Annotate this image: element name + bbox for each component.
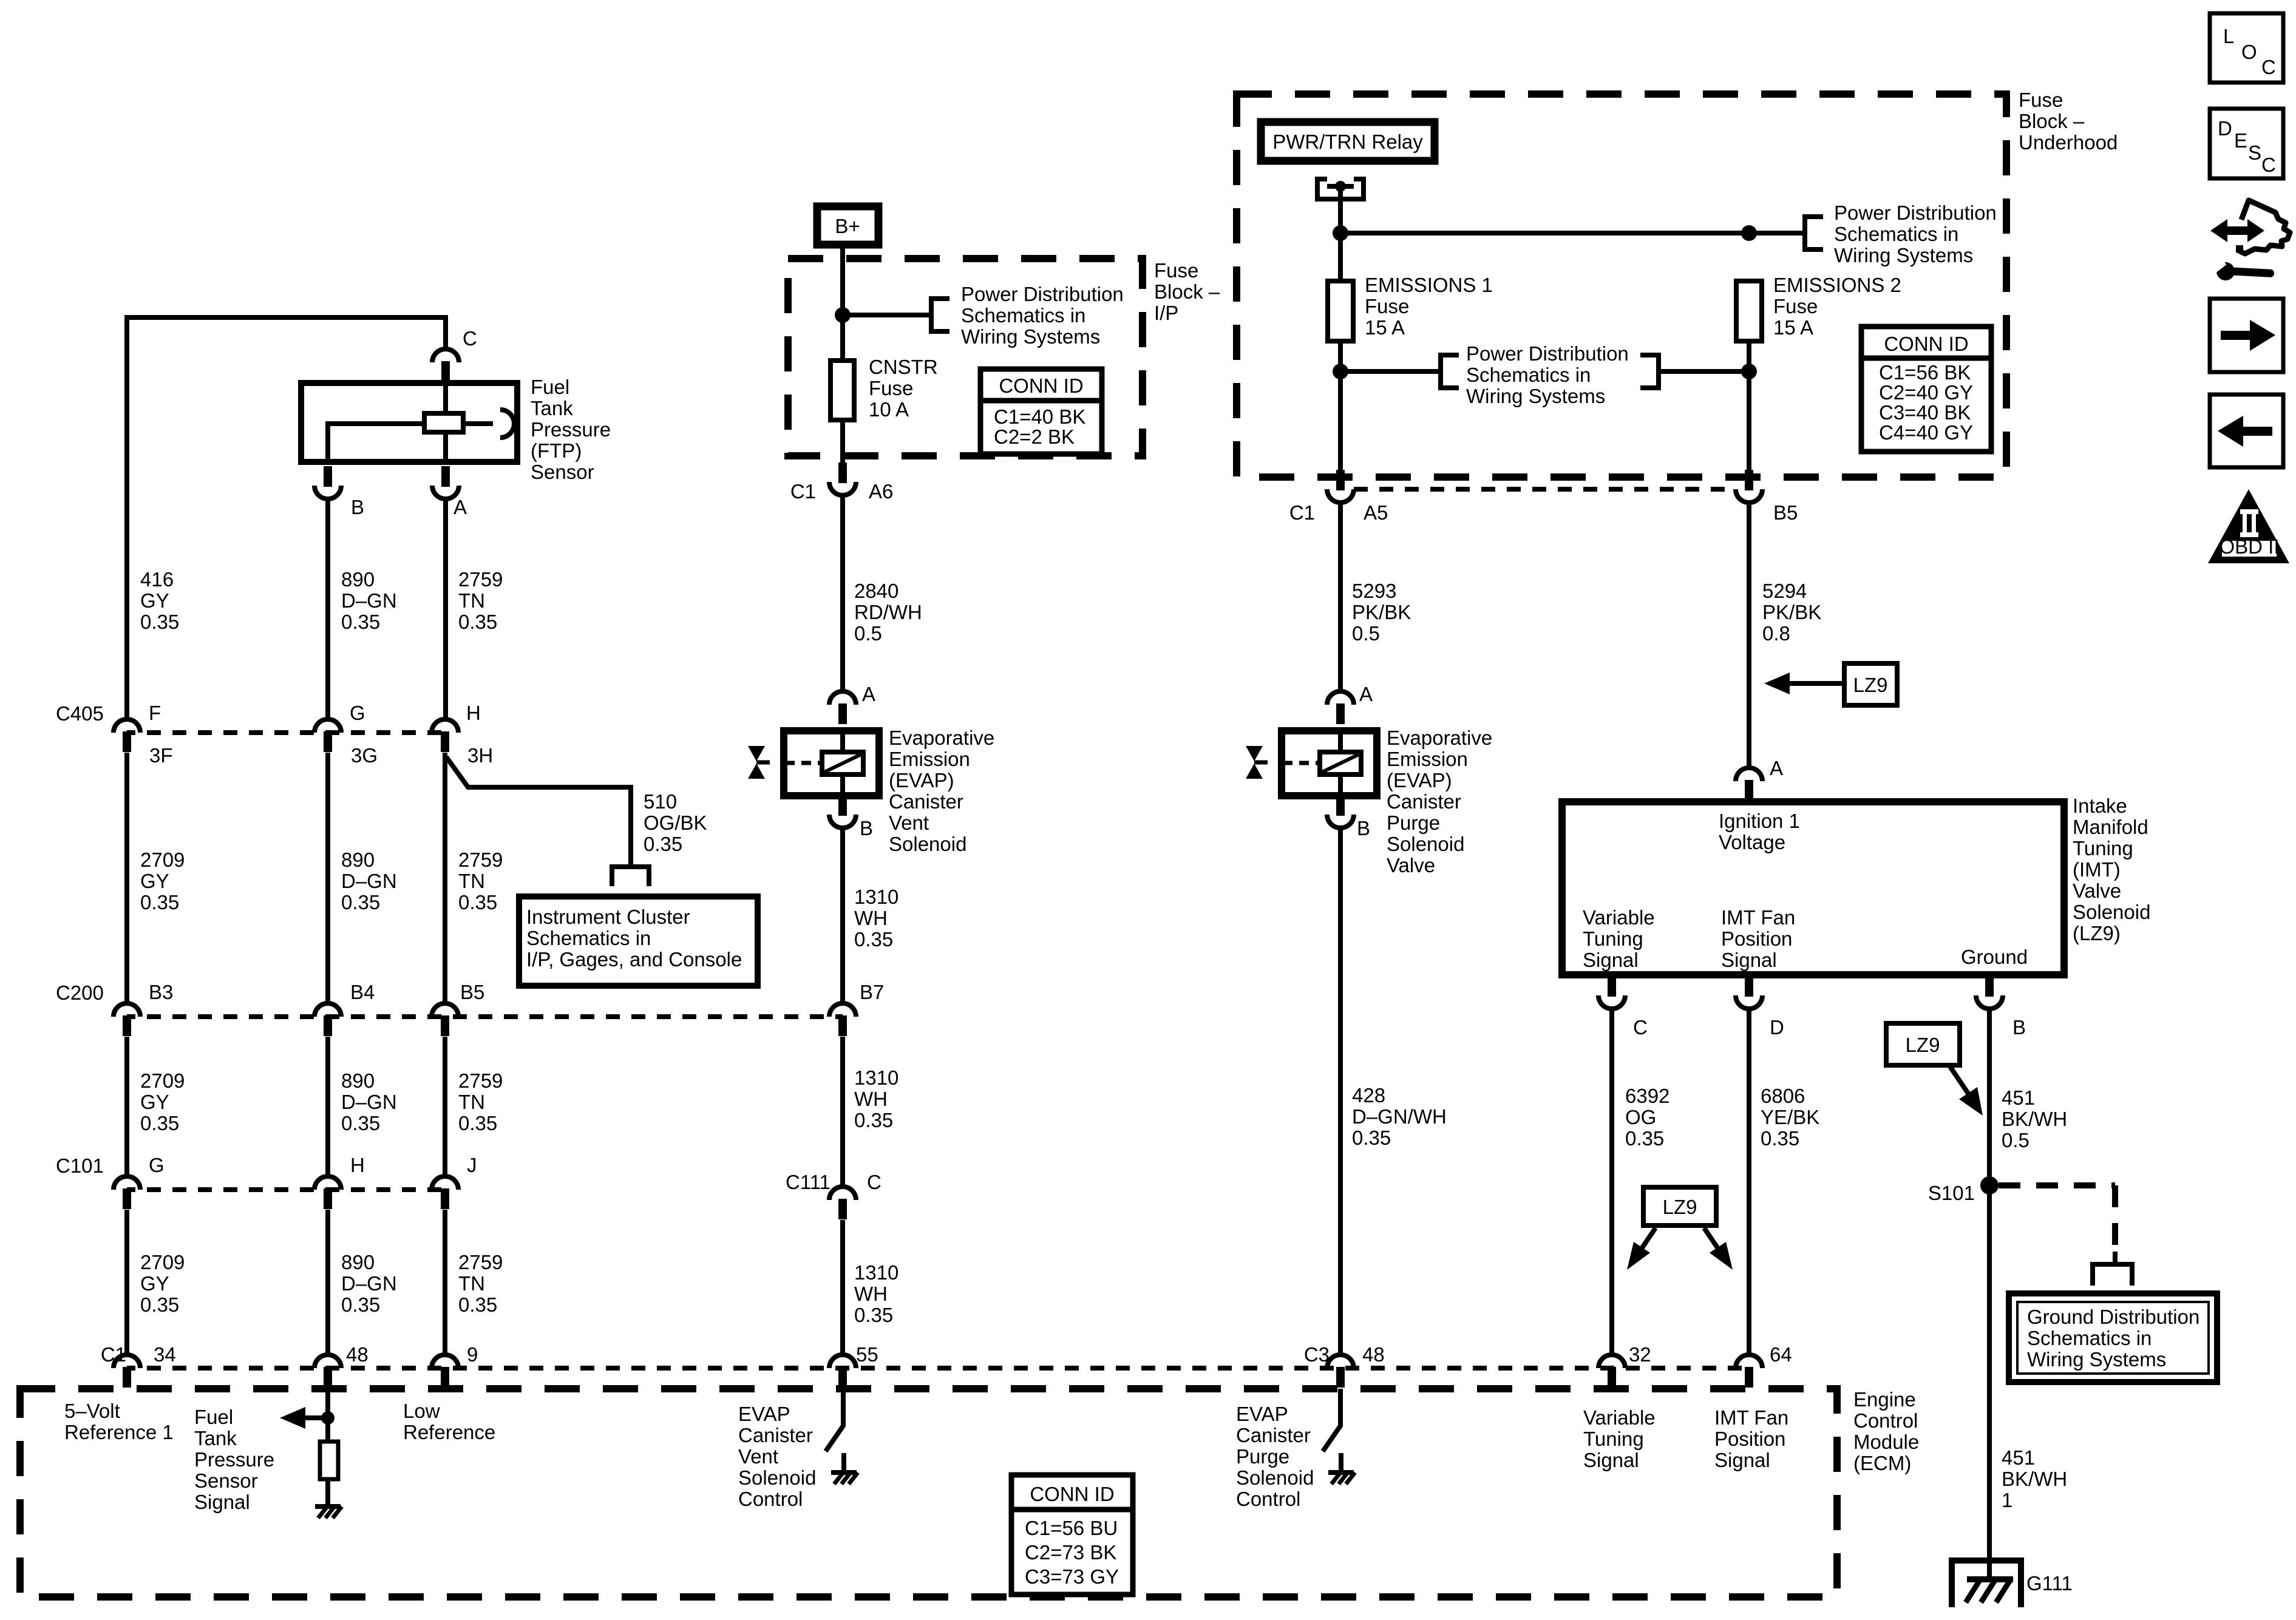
svg-text:OG/BK: OG/BK: [644, 812, 707, 834]
svg-text:Solenoid: Solenoid: [1387, 833, 1464, 855]
svg-text:Power Distribution: Power Distribution: [961, 283, 1124, 305]
wire 2709 GY segment 4: [124, 1210, 129, 1355]
svg-text:0.35: 0.35: [1352, 1127, 1391, 1149]
LZ9 arrow to ground wire: [1950, 1066, 1970, 1096]
svg-text:GY: GY: [140, 1091, 169, 1113]
svg-text:Position: Position: [1714, 1428, 1785, 1450]
svg-text:Valve: Valve: [2073, 879, 2121, 902]
wire 890 D-GN segment 4: [325, 1210, 330, 1355]
svg-text:Signal: Signal: [1583, 949, 1639, 971]
svg-text:CONN ID: CONN ID: [1884, 333, 1968, 355]
svg-text:D: D: [2218, 117, 2232, 140]
svg-text:Signal: Signal: [1714, 1449, 1770, 1471]
svg-text:GY: GY: [140, 870, 169, 892]
svg-text:0.35: 0.35: [341, 1293, 380, 1316]
wire 2759 TN segment 4: [443, 1210, 447, 1355]
LZ9 arrow right: [1704, 1228, 1723, 1256]
CONN ID table (I/P): [980, 369, 1102, 454]
svg-text:A: A: [1359, 683, 1373, 705]
EVAP canister vent solenoid coil box: [784, 731, 879, 796]
svg-text:Signal: Signal: [1583, 1449, 1639, 1471]
LZ9 callout box with two arrows: [1643, 1187, 1716, 1225]
connector C1 ECM dashed line: [127, 1366, 1749, 1371]
ground G111 bracket: [1952, 1561, 2021, 1607]
svg-text:Valve: Valve: [1387, 854, 1435, 876]
svg-text:C101: C101: [56, 1154, 104, 1177]
FTP signal wire inside ECM: [325, 1389, 330, 1442]
svg-text:B5: B5: [460, 981, 484, 1003]
svg-text:5–Volt: 5–Volt: [64, 1400, 120, 1422]
svg-text:L: L: [2223, 25, 2234, 47]
svg-text:Power Distribution: Power Distribution: [1466, 342, 1629, 365]
PWR/TRN relay box: [1261, 122, 1435, 161]
wire 6392 OG: [1609, 1009, 1614, 1355]
svg-text:LZ9: LZ9: [1663, 1196, 1697, 1218]
diagnostic tool icon: double arrow: [2220, 226, 2255, 235]
svg-text:0.35: 0.35: [854, 1304, 893, 1326]
connector C101 dashed line: [127, 1187, 445, 1192]
svg-text:G: G: [350, 702, 365, 724]
connector C405 pin H: [432, 719, 458, 752]
svg-text:Vent: Vent: [738, 1445, 778, 1468]
svg-text:Control: Control: [1236, 1488, 1300, 1510]
wire 2709 GY segment 2: [124, 753, 129, 1003]
svg-text:B5: B5: [1773, 501, 1798, 524]
svg-text:Solenoid: Solenoid: [738, 1466, 816, 1489]
svg-text:Instrument Cluster: Instrument Cluster: [526, 906, 690, 928]
ECM connector pin 48: [314, 1355, 341, 1388]
ECM connector pin 64: [1736, 1355, 1762, 1388]
ECM connector pin 32: [1598, 1355, 1625, 1388]
svg-text:0.35: 0.35: [341, 1112, 380, 1134]
svg-text:Variable: Variable: [1583, 1406, 1656, 1429]
svg-text:C: C: [463, 327, 477, 350]
diagnostic tool icon: wrench: [2216, 262, 2235, 280]
wire 5293 PK/BK: [1338, 503, 1343, 691]
svg-text:C: C: [2261, 154, 2276, 176]
svg-text:G111: G111: [2026, 1572, 2073, 1595]
svg-text:Wiring Systems: Wiring Systems: [1466, 385, 1605, 407]
svg-text:C1=40 BK: C1=40 BK: [994, 405, 1085, 428]
svg-text:IMT Fan: IMT Fan: [1721, 906, 1795, 929]
svg-text:C3=40 BK: C3=40 BK: [1879, 401, 1971, 424]
svg-text:416: 416: [140, 568, 174, 591]
svg-text:Fuse: Fuse: [869, 377, 913, 399]
svg-text:J: J: [467, 1154, 477, 1176]
ECM connector pin 34: [114, 1355, 140, 1388]
wire 2759 TN segment 3: [443, 1037, 447, 1176]
svg-text:890: 890: [341, 1251, 375, 1273]
svg-text:PK/BK: PK/BK: [1352, 601, 1411, 623]
svg-text:S101: S101: [1928, 1182, 1975, 1204]
svg-text:0.35: 0.35: [140, 611, 179, 633]
svg-text:2759: 2759: [458, 1251, 503, 1273]
svg-text:Tank: Tank: [194, 1427, 237, 1449]
connector C405 pin G: [314, 719, 341, 752]
splice S101: [1980, 1176, 1999, 1195]
EVAP canister vent solenoid actuating dashed link: [785, 761, 822, 765]
svg-text:Solenoid: Solenoid: [889, 833, 966, 855]
connector C200 dashed line: [127, 1014, 843, 1019]
svg-text:0.8: 0.8: [1762, 622, 1790, 645]
connector C111 pin C: [829, 1187, 856, 1219]
connector C200 pin B7: [829, 1003, 856, 1036]
svg-text:0.35: 0.35: [341, 611, 380, 633]
svg-text:0.5: 0.5: [854, 622, 882, 645]
svg-text:C111: C111: [786, 1171, 830, 1193]
svg-text:Sensor: Sensor: [531, 461, 594, 483]
ECM internal ground: [315, 1504, 341, 1509]
EVAP canister purge solenoid internal wire: [1338, 731, 1343, 796]
svg-text:0.35: 0.35: [1625, 1127, 1664, 1150]
vent control driver switch: [826, 1389, 843, 1451]
svg-text:C405: C405: [56, 702, 104, 725]
svg-text:A5: A5: [1364, 501, 1388, 524]
wire 2759 TN segment 2: [443, 753, 447, 1003]
purge solenoid pin A connector: [1327, 691, 1354, 724]
svg-text:GY: GY: [140, 1272, 169, 1295]
svg-text:3F: 3F: [149, 744, 173, 767]
svg-text:B: B: [1357, 817, 1370, 839]
svg-text:C1=56 BU: C1=56 BU: [1025, 1517, 1118, 1539]
svg-text:Schematics in: Schematics in: [1466, 364, 1591, 386]
svg-text:Purge: Purge: [1236, 1445, 1289, 1468]
svg-text:(FTP): (FTP): [531, 439, 582, 462]
junction node: [1741, 225, 1757, 241]
svg-text:C200: C200: [56, 981, 104, 1004]
wire B+ feed into fuse block: [840, 245, 845, 361]
svg-text:Block –: Block –: [2019, 110, 2085, 132]
svg-text:Manifold: Manifold: [2073, 816, 2148, 838]
connector C200 pin B3: [114, 1003, 140, 1036]
IMT pin D connector: [1736, 976, 1762, 1009]
svg-text:Voltage: Voltage: [1719, 831, 1785, 853]
fuse block I/P dashed outline: [788, 259, 1143, 456]
svg-text:C1=56 BK: C1=56 BK: [1879, 361, 1971, 384]
svg-text:Ground: Ground: [1961, 946, 2028, 968]
ECM connector pin 9: [432, 1355, 458, 1388]
wire 6806 YE/BK: [1747, 1009, 1751, 1355]
svg-text:890: 890: [341, 568, 375, 591]
CONN ID table (ECM): [1011, 1475, 1133, 1595]
svg-text:32: 32: [1629, 1343, 1651, 1366]
svg-text:2759: 2759: [458, 1069, 503, 1092]
svg-text:890: 890: [341, 1069, 375, 1092]
ECM pull resistor: [320, 1442, 338, 1479]
svg-text:Schematics in: Schematics in: [526, 927, 651, 949]
purge solenoid pin B connector: [1327, 795, 1354, 828]
svg-text:LZ9: LZ9: [1906, 1034, 1940, 1056]
svg-text:WH: WH: [854, 1088, 888, 1110]
wire 451 BK/WH: [1987, 1009, 1992, 1579]
engine control module dashed outline: [20, 1389, 1837, 1597]
svg-text:5294: 5294: [1762, 580, 1807, 602]
EVAP canister vent solenoid valve symbol: [748, 746, 765, 761]
svg-text:D–GN: D–GN: [341, 1272, 397, 1295]
svg-text:WH: WH: [854, 1283, 888, 1305]
B+ power feed box: [817, 206, 878, 245]
vent driver ground: [831, 1470, 857, 1475]
junction node: [1333, 364, 1348, 379]
svg-text:EMISSIONS 1: EMISSIONS 1: [1365, 274, 1493, 296]
svg-text:64: 64: [1770, 1343, 1792, 1366]
svg-text:6392: 6392: [1625, 1085, 1669, 1107]
wire 428 D-GN/WH: [1338, 828, 1343, 1355]
svg-text:1310: 1310: [854, 1261, 898, 1284]
FTP internal wires: [328, 424, 493, 465]
svg-text:0.35: 0.35: [854, 928, 893, 951]
svg-text:A: A: [862, 683, 875, 705]
LZ9 callout box (ground wire): [1886, 1023, 1960, 1065]
svg-text:CONN ID: CONN ID: [1030, 1483, 1114, 1505]
IMT valve pin A connector: [1736, 768, 1762, 801]
svg-text:510: 510: [644, 790, 677, 813]
svg-text:(ECM): (ECM): [1853, 1452, 1911, 1474]
svg-text:Emission: Emission: [1387, 748, 1468, 770]
svg-text:Underhood: Underhood: [2019, 131, 2118, 154]
svg-text:EMISSIONS 2: EMISSIONS 2: [1773, 274, 1901, 296]
svg-text:D: D: [1770, 1016, 1784, 1039]
svg-text:2759: 2759: [458, 849, 503, 871]
svg-text:Fuse: Fuse: [1773, 295, 1818, 317]
svg-text:48: 48: [346, 1343, 369, 1366]
svg-text:Reference: Reference: [403, 1421, 495, 1443]
diagnostic tool icon: bent outline: [2238, 200, 2290, 254]
svg-text:5293: 5293: [1352, 580, 1396, 602]
fuel tank pressure sensor box: [301, 383, 517, 462]
svg-text:C: C: [2261, 56, 2276, 78]
svg-text:2759: 2759: [458, 568, 503, 591]
svg-text:55: 55: [856, 1343, 878, 1366]
svg-text:EVAP: EVAP: [1236, 1403, 1288, 1425]
LZ9 arrow to wire: [1788, 681, 1844, 686]
connector C1 pin A5: [1327, 470, 1354, 503]
svg-text:0.35: 0.35: [140, 891, 179, 913]
connector C200 pin B5: [432, 1003, 458, 1036]
svg-text:BK/WH: BK/WH: [2002, 1108, 2067, 1130]
svg-text:A: A: [453, 496, 467, 518]
svg-text:B+: B+: [835, 215, 860, 237]
svg-text:2709: 2709: [140, 1069, 185, 1092]
EVAP canister purge solenoid coil box: [1282, 731, 1377, 796]
connector C101 pin H: [314, 1176, 341, 1209]
forward arrow icon box: [2210, 299, 2283, 372]
svg-text:LZ9: LZ9: [1853, 674, 1888, 696]
svg-text:A: A: [1770, 757, 1783, 779]
svg-text:TN: TN: [458, 1272, 485, 1295]
wire 890 D-GN segment 1: [325, 499, 330, 719]
wire 2840 RD/WH: [840, 495, 845, 691]
svg-text:Wiring Systems: Wiring Systems: [2027, 1348, 2166, 1371]
wire 2759 TN segment 1: [443, 499, 448, 719]
svg-text:OG: OG: [1625, 1106, 1656, 1128]
wire CNSTR fuse to pin A6: [840, 420, 845, 463]
EMISSIONS 2 fuse: [1736, 281, 1762, 341]
svg-text:2840: 2840: [854, 580, 898, 602]
wire bus to EMISSIONS 2 and power distribution: [1340, 231, 1805, 236]
wire relay to EMISSIONS 1 fuse: [1338, 186, 1343, 281]
svg-text:B: B: [2012, 1016, 2026, 1039]
ECM connector pin 48 (C3): [1327, 1355, 1354, 1388]
back arrow icon box: [2210, 395, 2283, 467]
wire 1310 WH segment 2: [840, 1037, 845, 1187]
fuse block underhood dashed outline: [1237, 94, 2006, 477]
svg-text:0.35: 0.35: [341, 891, 380, 913]
svg-text:Control: Control: [1853, 1409, 1918, 1432]
CNSTR fuse: [830, 361, 854, 420]
svg-text:890: 890: [341, 849, 375, 871]
svg-text:Tank: Tank: [531, 397, 573, 419]
relay output terminal symbol: [1317, 177, 1364, 199]
svg-text:C2=40 GY: C2=40 GY: [1879, 381, 1973, 404]
svg-text:Fuse: Fuse: [2019, 89, 2063, 111]
svg-text:Wiring Systems: Wiring Systems: [1834, 244, 1973, 266]
wire resistor to ground: [325, 1479, 330, 1506]
EVAP canister vent solenoid coil: [822, 752, 863, 774]
svg-text:C2=2 BK: C2=2 BK: [994, 425, 1075, 448]
svg-text:E: E: [2234, 129, 2247, 152]
connector C101 pin J: [432, 1176, 458, 1209]
svg-text:Fuse: Fuse: [1365, 295, 1409, 317]
wire 510 OG/BK branch from pin 3H: [446, 757, 631, 867]
IMT pin B connector: [1976, 976, 2003, 1009]
svg-text:TN: TN: [458, 589, 485, 612]
wire 5294 PK/BK: [1747, 503, 1751, 768]
IMT pin C connector: [1598, 976, 1625, 1009]
EVAP canister purge solenoid valve symbol: [1246, 746, 1263, 761]
svg-text:9: 9: [467, 1343, 478, 1366]
wire 2709 GY segment 3: [124, 1037, 129, 1176]
svg-text:EVAP: EVAP: [738, 1403, 790, 1425]
ground G111 chassis symbol: [1967, 1576, 2013, 1582]
intake manifold tuning valve solenoid box: [1562, 802, 2064, 975]
svg-text:0.35: 0.35: [458, 1112, 497, 1134]
svg-text:Canister: Canister: [1236, 1424, 1311, 1446]
svg-text:WH: WH: [854, 907, 888, 929]
svg-text:(LZ9): (LZ9): [2073, 922, 2121, 944]
svg-text:Solenoid: Solenoid: [2073, 901, 2150, 923]
svg-text:C: C: [1633, 1016, 1648, 1039]
svg-text:Ignition 1: Ignition 1: [1719, 810, 1800, 832]
CONN ID table (underhood): [1861, 327, 1991, 452]
svg-text:Signal: Signal: [1721, 949, 1777, 971]
svg-text:GY: GY: [140, 589, 169, 612]
svg-text:C3: C3: [1304, 1343, 1330, 1366]
svg-text:0.35: 0.35: [458, 1293, 497, 1316]
connector dotted line A5-B5: [1354, 487, 1736, 492]
svg-text:428: 428: [1352, 1084, 1385, 1107]
svg-text:I/P: I/P: [1154, 302, 1178, 324]
off-page bracket power distribution: [931, 296, 949, 334]
off-page bracket power distribution (top): [1805, 214, 1823, 252]
FTP pin C connector: [432, 349, 459, 382]
svg-text:0.35: 0.35: [854, 1109, 893, 1131]
svg-text:Tuning: Tuning: [1583, 927, 1643, 950]
svg-text:0.35: 0.35: [1761, 1127, 1799, 1150]
FTP internal wire from C to element: [443, 382, 448, 413]
svg-text:D–GN: D–GN: [341, 870, 397, 892]
FTP signal arrow: [303, 1415, 328, 1420]
svg-text:Ground Distribution: Ground Distribution: [2027, 1306, 2199, 1328]
junction node: [1741, 364, 1757, 379]
svg-text:15 A: 15 A: [1773, 316, 1813, 339]
EVAP canister vent solenoid internal wire: [840, 731, 845, 796]
svg-text:TN: TN: [458, 870, 485, 892]
svg-text:451: 451: [2002, 1086, 2035, 1109]
svg-text:Block –: Block –: [1154, 280, 1220, 303]
svg-text:Fuse: Fuse: [1154, 259, 1198, 282]
svg-text:Variable: Variable: [1583, 906, 1655, 929]
wire 890 D-GN segment 2: [325, 753, 330, 1003]
LZ9 arrow left: [1637, 1228, 1656, 1256]
svg-text:Schematics in: Schematics in: [961, 304, 1085, 327]
svg-text:A6: A6: [869, 480, 893, 503]
instrument cluster reference box: [519, 896, 758, 986]
purge driver ground: [1328, 1470, 1354, 1475]
svg-text:I/P, Gages, and Console: I/P, Gages, and Console: [526, 948, 742, 971]
svg-text:C2=73 BK: C2=73 BK: [1025, 1541, 1116, 1564]
svg-text:0.35: 0.35: [644, 833, 682, 855]
EVAP canister purge solenoid coil: [1320, 752, 1361, 774]
svg-text:Position: Position: [1721, 927, 1792, 950]
svg-text:1: 1: [2002, 1489, 2012, 1511]
svg-text:Power Distribution: Power Distribution: [1834, 202, 1997, 224]
svg-text:B7: B7: [860, 981, 884, 1003]
LOC icon box: [2210, 13, 2283, 83]
svg-text:3H: 3H: [467, 744, 493, 767]
wire mid bracket to EMISSIONS2 branch: [1659, 341, 1749, 470]
svg-text:Module: Module: [1853, 1431, 1919, 1453]
svg-text:Schematics in: Schematics in: [1834, 223, 1958, 245]
svg-text:B: B: [860, 817, 873, 839]
svg-text:Fuel: Fuel: [531, 376, 569, 398]
svg-text:Evaporative: Evaporative: [889, 727, 994, 749]
svg-text:15 A: 15 A: [1365, 316, 1405, 339]
svg-text:0.5: 0.5: [1352, 622, 1380, 645]
svg-text:Solenoid: Solenoid: [1236, 1466, 1314, 1489]
dashed branch to ground distribution: [1999, 1185, 2115, 1252]
svg-text:Engine: Engine: [1853, 1388, 1916, 1411]
svg-text:C3=73 GY: C3=73 GY: [1025, 1565, 1119, 1588]
svg-text:(EVAP): (EVAP): [1387, 769, 1452, 791]
svg-text:Canister: Canister: [889, 790, 963, 813]
svg-text:BK/WH: BK/WH: [2002, 1468, 2067, 1490]
svg-text:34: 34: [154, 1343, 176, 1366]
connector C200 pin B4: [314, 1003, 341, 1036]
svg-text:TN: TN: [458, 1091, 485, 1113]
svg-text:0.35: 0.35: [458, 611, 497, 633]
junction node: [1333, 225, 1348, 241]
svg-text:Pressure: Pressure: [531, 418, 611, 441]
vent solenoid pin B connector: [829, 795, 856, 828]
svg-text:C4=40 GY: C4=40 GY: [1879, 421, 1973, 444]
svg-text:Emission: Emission: [889, 748, 970, 770]
EMISSIONS 1 fuse: [1328, 281, 1353, 341]
off-page bracket to ground distribution: [2093, 1264, 2132, 1286]
svg-text:C1: C1: [790, 480, 816, 503]
off-page bracket (mid right): [1640, 353, 1659, 390]
junction node: [321, 1411, 335, 1425]
svg-text:B4: B4: [350, 981, 375, 1003]
svg-text:Signal: Signal: [194, 1491, 250, 1513]
svg-text:Intake: Intake: [2073, 795, 2127, 817]
svg-text:0.5: 0.5: [2002, 1129, 2029, 1151]
svg-text:6806: 6806: [1761, 1085, 1805, 1107]
ECM connector pin 55: [829, 1355, 856, 1388]
OBD II icon triangle: [2208, 489, 2289, 563]
svg-text:(IMT): (IMT): [2073, 858, 2121, 881]
svg-text:Canister: Canister: [738, 1424, 813, 1446]
